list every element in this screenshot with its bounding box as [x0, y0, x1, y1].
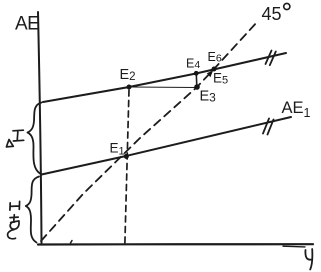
vertical dashed line from E2 to x-axis: [125, 90, 129, 247]
point E1: [124, 154, 129, 159]
arrowhead on 45-degree line: [207, 70, 213, 77]
horizontal guide line E2 to E3: [131, 86, 196, 89]
vertical guide line E4 to E3: [195, 74, 198, 86]
svg-text:45: 45: [262, 4, 282, 24]
x-axis (y axis): [38, 243, 313, 246]
svg-text:E3: E3: [200, 89, 217, 105]
svg-text:E1: E1: [110, 141, 125, 158]
svg-text:E4: E4: [186, 57, 200, 72]
break mark on lower AE line: [263, 119, 274, 135]
degree circle of 45 label: [284, 3, 290, 9]
svg-text:E5: E5: [213, 71, 228, 87]
x-axis overlap stroke: [283, 245, 305, 248]
svg-text:E2: E2: [120, 67, 136, 83]
point E5/E6 (equilibrium dot): [212, 67, 217, 72]
svg-text:AE: AE: [15, 14, 39, 35]
point E2: [127, 85, 132, 90]
break mark on upper AE line: [266, 51, 276, 66]
point E4: [194, 71, 199, 76]
brace for Ca+I: [26, 177, 39, 243]
point E3: [194, 84, 200, 90]
tick on x-axis: [71, 241, 73, 244]
y-axis (AE axis): [38, 12, 42, 243]
upper AE line: [43, 53, 286, 102]
lower AE line (AE1): [42, 117, 292, 175]
45-degree dashed line: [41, 21, 258, 241]
svg-text:AE1: AE1: [282, 99, 311, 120]
brace for delta-I: [28, 103, 42, 174]
hand-drawn y glyph (x-axis label): [305, 249, 312, 270]
label delta-I (hand-drawn glyphs): [6, 130, 23, 147]
svg-text:E6: E6: [208, 50, 222, 65]
label Ca+I (hand-drawn glyphs): [8, 201, 20, 238]
